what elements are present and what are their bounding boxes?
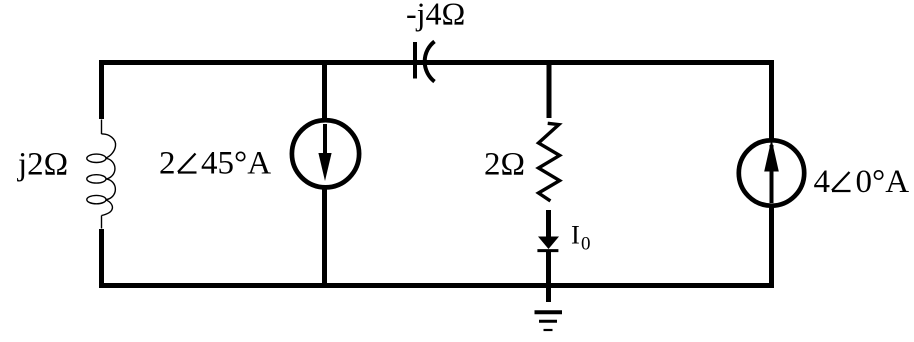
label I0 <box>571 220 591 255</box>
svg-text:2Ω: 2Ω <box>484 147 525 183</box>
ground bar 3 <box>544 329 553 331</box>
current arrow I0 head <box>537 237 559 251</box>
svg-text:45°A: 45°A <box>201 146 271 182</box>
svg-text:0°A: 0°A <box>856 164 910 200</box>
wire below resistor <box>546 210 551 238</box>
ground bar 2 <box>539 320 557 323</box>
svg-text:-j4Ω: -j4Ω <box>406 0 465 31</box>
capacitor C1 right plate (arc) <box>425 41 435 81</box>
wire through bottom to ground <box>546 252 551 302</box>
capacitor C1 left plate <box>413 42 417 79</box>
svg-text:4: 4 <box>814 164 831 200</box>
wire top <box>99 60 774 65</box>
inductor L1 j2ohm <box>87 120 116 229</box>
wire bottom <box>99 283 774 288</box>
svg-text:2: 2 <box>159 146 176 182</box>
current source I1 arrow (down) <box>318 124 331 181</box>
svg-text:j2Ω: j2Ω <box>17 147 68 183</box>
svg-text:I: I <box>571 220 580 250</box>
current source I2 arrow (up) <box>764 139 779 203</box>
wire branch CS1 upper <box>322 60 327 118</box>
wire branch resistor upper <box>547 60 552 118</box>
wire left lower <box>99 229 104 288</box>
resistor R1 2ohm zigzag <box>539 123 560 201</box>
current source I1 circle <box>292 120 359 187</box>
wire branch CS1 lower <box>322 189 327 288</box>
label 2angle45A <box>159 146 271 182</box>
svg-text:0: 0 <box>581 234 591 255</box>
ground bar 1 <box>535 310 563 314</box>
wire left upper <box>99 60 104 119</box>
wire right lower <box>769 207 774 288</box>
current source I2 circle <box>739 140 804 205</box>
wire right upper <box>769 60 774 139</box>
label 4angle0A <box>814 164 910 200</box>
